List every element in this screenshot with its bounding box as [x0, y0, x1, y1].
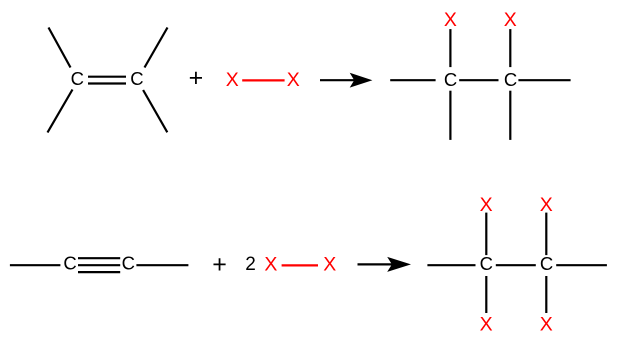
svg-text:C: C	[130, 68, 143, 89]
svg-text:+: +	[189, 64, 204, 92]
svg-text:X: X	[480, 194, 493, 216]
svg-text:X: X	[444, 9, 457, 31]
svg-text:2: 2	[245, 254, 256, 275]
svg-text:X: X	[540, 314, 553, 336]
svg-text:X: X	[226, 69, 239, 91]
svg-text:X: X	[287, 69, 300, 91]
svg-text:X: X	[480, 314, 493, 336]
svg-text:C: C	[122, 252, 135, 273]
svg-text:+: +	[212, 250, 227, 278]
svg-text:C: C	[480, 253, 493, 274]
svg-text:C: C	[63, 252, 76, 273]
svg-text:C: C	[540, 253, 553, 274]
svg-text:C: C	[444, 69, 457, 90]
svg-text:X: X	[264, 254, 277, 276]
svg-text:C: C	[71, 68, 84, 89]
svg-text:X: X	[323, 254, 336, 276]
svg-text:C: C	[504, 69, 517, 90]
svg-text:X: X	[504, 9, 517, 31]
svg-text:X: X	[540, 194, 553, 216]
